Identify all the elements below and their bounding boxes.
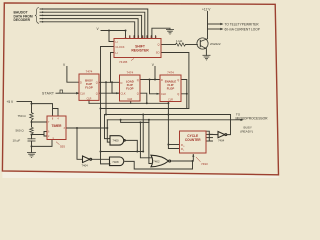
junction at 192.5,161: [192, 160, 194, 162]
svg-text:750 Ω: 750 Ω: [18, 114, 27, 118]
svg-text:1: 1: [183, 150, 184, 152]
junction at 168.4,114.5: [167, 114, 169, 116]
wire baudot line 5: [40, 22, 135, 39]
resistor R 560 ohm: [30, 127, 34, 134]
wire shift reg pin A stub: [125, 36, 127, 39]
junction at 106,114.5: [105, 114, 107, 116]
svg-text:Q: Q: [96, 80, 98, 84]
junction at 186.8,93.8: [186, 93, 188, 95]
svg-text:Q: Q: [177, 78, 179, 82]
junction at 100.5,151.5: [100, 151, 102, 153]
arrowhead current loop 2: [220, 28, 223, 31]
arrowhead baudot line 2: [42, 11, 44, 13]
wire baudot line 4: [40, 19, 138, 39]
junction at 107.3,128: [106, 127, 108, 129]
cycle counter U6 7493: [180, 131, 207, 153]
svg-text:74165: 74165: [119, 60, 128, 64]
wire counter output stub c: [206, 137, 213, 139]
wire nand out: [125, 140, 137, 151]
wire 555 pin1 ground: [32, 140, 53, 147]
wire counter output stub b: [206, 133, 213, 135]
junction at 168.4,144.5: [167, 144, 169, 146]
load flip flop U3 7474: [120, 75, 141, 101]
wire counter outputs comb: [206, 131, 209, 141]
ground timer: [27, 153, 36, 158]
wire counter output stub d: [206, 140, 213, 142]
svg-text:COUNTER: COUNTER: [185, 138, 201, 142]
svg-text:REGISTER: REGISTER: [131, 48, 149, 52]
svg-text:LI: LI: [116, 40, 118, 44]
and gate 7408: [110, 157, 124, 166]
arrowhead baudot line 1: [42, 8, 44, 10]
svg-text:7402: 7402: [153, 159, 160, 163]
arrowhead baudot line 3: [42, 15, 44, 17]
wire load Qbar stub: [140, 93, 147, 103]
wire busy clr pin: [88, 100, 90, 103]
svg-text:LI: LI: [116, 51, 118, 55]
brace: [35, 8, 39, 24]
enable flip flop U4 7474: [160, 75, 181, 102]
svg-text:2N2222: 2N2222: [210, 42, 221, 46]
wire bus drop to nand bottom input: [107, 120, 110, 142]
wire shift reg QH to resistor: [161, 44, 176, 46]
svg-text:Q: Q: [137, 92, 139, 96]
wire clock drop to inverter: [77, 128, 83, 159]
junction at 31.5,122: [31, 121, 33, 123]
svg-text:Q: Q: [137, 78, 139, 82]
wire shift reg pin G stub: [150, 36, 152, 39]
junction at 137.3,151.5: [136, 151, 138, 153]
wire emitter to ground: [205, 49, 207, 56]
junction at 143.2,114.5: [142, 114, 144, 116]
junction at 109,30.5: [108, 30, 110, 32]
svg-text:Q: Q: [96, 91, 98, 95]
wire cap to ground: [31, 141, 33, 152]
wire start to clk: [56, 92, 78, 94]
wire shift reg pin E stub: [142, 36, 144, 39]
wire load clr pin: [130, 101, 132, 103]
svg-text:7404: 7404: [82, 164, 89, 168]
wire counter to inverter2: [209, 133, 218, 135]
svg-text:1 kΩ: 1 kΩ: [176, 39, 183, 43]
wire clear bus: [89, 102, 168, 104]
svg-text:D: D: [80, 80, 82, 84]
svg-text:H: H: [155, 36, 157, 39]
shift register U1 74165: [114, 39, 161, 58]
svg-text:Q: Q: [157, 43, 159, 47]
wire busy Qbar to load clk: [99, 92, 120, 94]
ground transistor emitter: [203, 55, 211, 60]
svg-text:+12 V: +12 V: [202, 8, 211, 12]
svg-text:7474: 7474: [126, 71, 133, 75]
svg-text:60-mA CURRENT LOOP: 60-mA CURRENT LOOP: [225, 28, 260, 32]
svg-text:7400: 7400: [112, 139, 119, 143]
arrowhead baudot line 4: [42, 18, 44, 20]
wire chain below r2: [31, 135, 33, 139]
nand gate 7400: [110, 136, 125, 145]
wire shift reg pin H stub: [155, 36, 157, 39]
wire bus1 drop to clock branch: [142, 115, 144, 152]
wire nor out to counter clock: [171, 155, 194, 162]
junction at 146.8,103.3: [146, 102, 148, 104]
junction at 125.5,30.5: [125, 30, 127, 32]
junction at 149.5,79.5: [149, 79, 151, 81]
wire LI lower pin: [111, 53, 115, 83]
junction at 140.4,122.4: [139, 121, 141, 123]
wire V to enable D: [154, 67, 156, 80]
wire shift reg pin B stub: [129, 36, 131, 39]
arrowhead into counter clock: [192, 154, 194, 157]
busy flip flop U2 7474: [79, 74, 99, 100]
wire shift reg pin D stub: [137, 36, 139, 39]
arrowhead baudot line 5: [42, 21, 44, 23]
arrowhead into enable clk: [157, 93, 160, 95]
svg-text:TO TELETYPEWRITER: TO TELETYPEWRITER: [225, 22, 260, 26]
wire enable Qbar tap: [181, 94, 187, 109]
nor gate 7402: [151, 155, 171, 167]
transistor Q1 2N2222: [197, 38, 208, 49]
wire shift reg pin C stub: [133, 36, 135, 39]
wire and out to counter clock: [125, 161, 193, 169]
junction at 31.5,146.4: [31, 145, 33, 147]
svg-text:G: G: [150, 36, 152, 39]
svg-text:CLOCK: CLOCK: [116, 45, 125, 49]
inverter 7404 busy: [218, 132, 227, 138]
wire 555 vcc branch: [32, 104, 59, 116]
ground shift register unused pins: [166, 28, 174, 34]
wire inverter1 out to and gate: [92, 158, 110, 160]
svg-text:CLK: CLK: [161, 92, 166, 96]
svg-text:TIMER: TIMER: [52, 124, 63, 128]
wire baudot line 1: [40, 9, 148, 39]
junction at 106,82.3: [105, 81, 107, 83]
junction at 143.2,151.5: [142, 151, 144, 153]
svg-text:FLOP: FLOP: [85, 86, 93, 90]
wire baudot line 3: [40, 15, 142, 38]
svg-text:Q: Q: [177, 92, 179, 96]
wire 555 pin8 stub: [52, 109, 54, 117]
svg-text:FLOP: FLOP: [126, 87, 134, 91]
wire serial bus y108: [101, 53, 189, 109]
junction at 148.9,119.8: [148, 119, 150, 121]
label baudot data from decoder: [14, 11, 33, 22]
svg-text:C: C: [133, 36, 135, 39]
wire enable Q tap: [181, 80, 187, 94]
wire pin7 branch: [32, 121, 48, 123]
wire pin6 pin2 branch: [32, 132, 48, 135]
junction at 168.4,103.3: [167, 102, 169, 104]
capacitor 10uF: [28, 139, 36, 141]
resistor 1k: [176, 43, 186, 46]
svg-text:START: START: [42, 92, 54, 96]
svg-text:CLR: CLR: [168, 99, 173, 102]
svg-text:D: D: [138, 36, 140, 39]
junction at 31.5,103.6: [31, 103, 33, 105]
arrowhead current loop 1: [220, 23, 223, 26]
wire enable clr pin to counter R1: [168, 102, 179, 149]
wire busy vertical to data bus: [105, 82, 107, 114]
svg-text:DECODER: DECODER: [14, 18, 31, 22]
junction at 112,82.3: [111, 81, 113, 83]
svg-text:7408: 7408: [112, 160, 119, 164]
svg-text:MICROPROCESSOR: MICROPROCESSOR: [236, 116, 269, 120]
wire busy ready line: [107, 119, 241, 121]
wire 555 supply vertical: [31, 102, 33, 113]
svg-text:+5 V: +5 V: [7, 100, 15, 104]
svg-text:555: 555: [60, 144, 65, 148]
svg-text:7493: 7493: [201, 162, 208, 166]
svg-text:0: 0: [183, 146, 184, 148]
wire busy FF D supply: [67, 67, 79, 83]
junction at 100.5,108.5: [100, 108, 102, 110]
wire baudot line 2: [40, 12, 145, 38]
wire load Q branch to enable clk: [150, 80, 159, 94]
wire clock vertical: [101, 47, 115, 164]
wire counter R0 stub: [168, 144, 179, 146]
junction at 31.5,134.5: [31, 134, 33, 136]
junction at 77,128: [76, 127, 78, 129]
svg-text:7474: 7474: [86, 70, 93, 74]
resistor R 750 ohm: [30, 113, 34, 121]
svg-text:CLK: CLK: [121, 91, 126, 95]
wire 555 output: [66, 127, 107, 129]
wire inverter out up to busy: [227, 115, 231, 135]
wire busy Q to load D: [99, 81, 120, 83]
arrowheads: [42, 8, 244, 157]
wire 555 supply top: [17, 101, 32, 103]
arrowhead start to busy clk: [76, 92, 79, 95]
wire bus2 jog line3: [121, 120, 149, 123]
wire V to LI pin: [109, 31, 114, 42]
wire resistor to transistor base: [186, 44, 198, 46]
arrowhead into load clk: [116, 92, 119, 94]
start pulse symbol: [58, 90, 65, 93]
wire teletypewriter arrow 1: [208, 23, 221, 25]
wire +12V collector line: [207, 12, 209, 39]
wire shift register pin H to ground: [152, 28, 170, 38]
svg-text:7404: 7404: [218, 139, 225, 143]
svg-text:7474: 7474: [167, 71, 174, 75]
wire V plus to load inputs: [101, 31, 126, 39]
page edge below frame: [2, 172, 278, 178]
wire bus drop to nand top input: [105, 115, 111, 139]
svg-text:D: D: [121, 81, 123, 85]
wire data to microprocessor: [105, 114, 231, 116]
arrowhead to microprocessor: [241, 119, 244, 122]
wire clock branch to nor vertical: [101, 151, 144, 153]
svg-text:FLOP: FLOP: [167, 87, 175, 91]
svg-text:SO: SO: [156, 51, 160, 55]
wire bus2 drop to nor bottom input V3: [149, 120, 151, 164]
inverter 7404 clock: [83, 156, 92, 163]
timer U5 555: [47, 116, 66, 140]
wire Q to load clk: [112, 82, 120, 93]
junction at 120.6,119.8: [120, 119, 122, 121]
border frame: [2, 3, 278, 175]
svg-text:10 μF: 10 μF: [13, 138, 21, 142]
svg-text:CLR: CLR: [87, 98, 92, 101]
svg-text:(READY): (READY): [240, 129, 253, 133]
wire resistor chain mid: [31, 120, 33, 127]
svg-text:560 Ω: 560 Ω: [16, 129, 25, 133]
svg-text:CLR: CLR: [127, 98, 132, 101]
svg-text:D: D: [161, 78, 163, 82]
svg-text:CLK: CLK: [80, 91, 85, 95]
junction at 155,79.5: [154, 79, 156, 81]
wire load Q to enable D: [140, 79, 160, 81]
wire line3 drop to nor top input: [140, 122, 151, 157]
wire teletypewriter arrow 2: [208, 28, 221, 30]
wire shift reg pin F stub: [146, 36, 148, 39]
wire pin2 jog: [44, 135, 47, 137]
